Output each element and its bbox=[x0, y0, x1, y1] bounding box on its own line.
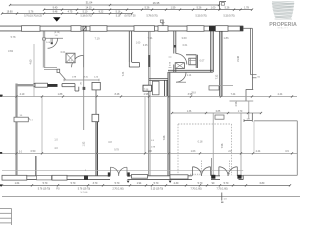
window B4 bottom wall bbox=[170, 175, 188, 179]
hall door arc bbox=[72, 55, 84, 67]
svg-text:(9.4): (9.4) bbox=[83, 76, 88, 78]
svg-text:0.07: 0.07 bbox=[200, 60, 205, 63]
right wall jog marks bbox=[251, 75, 261, 79]
left edge mark y96 bbox=[0, 95, 3, 97]
svg-text:5.16: 5.16 bbox=[116, 10, 121, 13]
annex right edge bbox=[296, 121, 298, 176]
svg-text:4.60: 4.60 bbox=[30, 59, 33, 64]
pier in top wall bbox=[209, 26, 215, 31]
bathtub bbox=[152, 81, 159, 95]
pier between doors 1 bbox=[211, 175, 215, 179]
double door arc right leaf bbox=[119, 167, 127, 176]
WC fixture box bbox=[189, 58, 196, 65]
window W4 top wall bbox=[134, 26, 155, 32]
svg-text:7.70 (1.60): 7.70 (1.60) bbox=[190, 188, 201, 190]
dashed rectangle right bbox=[231, 124, 233, 175]
svg-text:7.44: 7.44 bbox=[122, 71, 125, 76]
left exterior wall (thick grey) bbox=[15, 84, 17, 176]
svg-text:9.78: 9.78 bbox=[114, 149, 119, 151]
column box x92 y82.5 bbox=[92, 82, 100, 90]
svg-text:1.36: 1.36 bbox=[187, 111, 192, 113]
shaft box with cross bbox=[66, 53, 75, 63]
double door leaves bbox=[110, 167, 127, 176]
WC tiny tick marks bbox=[169, 57, 172, 68]
dashed segment in bottom wall bbox=[190, 173, 201, 175]
corridor door arc bbox=[176, 72, 186, 82]
door opening whiteout 3 bbox=[220, 175, 239, 180]
svg-text:14.10: 14.10 bbox=[86, 6, 93, 9]
annex bottom edge bbox=[243, 174, 297, 176]
wall x175 middle segment bbox=[174, 65, 176, 73]
door opening whiteout 1 bbox=[110, 175, 127, 180]
labels above y96.5 line bbox=[20, 93, 283, 96]
wall line x211.6 lower bbox=[211, 158, 213, 176]
svg-text:3.82: 3.82 bbox=[8, 49, 14, 53]
dimension line C (left) bbox=[2, 13, 132, 15]
svg-text:0.61: 0.61 bbox=[183, 44, 188, 47]
svg-text:7.19: 7.19 bbox=[94, 36, 100, 40]
svg-text:5.26: 5.26 bbox=[145, 6, 150, 9]
svg-text:9.40: 9.40 bbox=[53, 6, 58, 9]
hall door diagonal leaf bbox=[59, 72, 65, 79]
dashed rectangle left bbox=[177, 124, 179, 175]
pier between doors 2 bbox=[237, 175, 241, 179]
svg-text:6.80: 6.80 bbox=[260, 182, 265, 185]
svg-text:9.48: 9.48 bbox=[53, 10, 58, 13]
bottom dimension line E bbox=[2, 184, 290, 186]
hall wall y68.5 double bbox=[44, 68, 57, 70]
bottom exterior wall inner line bbox=[2, 175, 243, 177]
column box x92 y114.3 bbox=[92, 114, 99, 121]
annex dim labels bbox=[187, 111, 243, 113]
svg-text:5.70: 5.70 bbox=[154, 182, 159, 185]
vestibule wall x44 double bbox=[43, 31, 45, 68]
window W2 top wall bbox=[71, 26, 81, 32]
annex top edge bbox=[254, 120, 297, 122]
labels above y153.4 line bbox=[31, 150, 290, 153]
dimension text row D bbox=[24, 16, 235, 18]
bottom dim labels below bbox=[38, 188, 228, 190]
dimension labels row C bbox=[7, 10, 121, 13]
svg-text:5.76 (19.70): 5.76 (19.70) bbox=[78, 188, 91, 190]
svg-text:1.03: 1.03 bbox=[191, 150, 196, 153]
svg-text:5.76: 5.76 bbox=[29, 10, 34, 13]
svg-text:(9.70) 7.50: (9.70) 7.50 bbox=[124, 16, 136, 18]
thin vertical x145 bbox=[144, 97, 146, 153]
WC right wall bbox=[196, 55, 197, 68]
svg-text:5.78 (9.70): 5.78 (9.70) bbox=[146, 16, 157, 18]
vestibule box on wall bbox=[43, 38, 46, 40]
svg-text:7.98: 7.98 bbox=[144, 90, 149, 92]
svg-text:1.64: 1.64 bbox=[15, 182, 20, 185]
thin vertical x213 bbox=[212, 113, 214, 176]
window W1 top wall bbox=[22, 26, 41, 32]
svg-text:3.60: 3.60 bbox=[181, 36, 187, 40]
svg-text:5.70: 5.70 bbox=[198, 182, 203, 185]
overall dimension line A (31.04) bbox=[10, 4, 219, 6]
north arrow solid triangle bbox=[53, 17, 61, 21]
line F tick x222 bbox=[222, 193, 228, 201]
svg-text:5.78: 5.78 bbox=[11, 36, 16, 39]
wall x96.7 vertical dark bbox=[96, 122, 98, 176]
double door jamb pier right bbox=[127, 172, 130, 176]
radiator on left wall bbox=[14, 117, 28, 122]
interior thin vertical x34 bbox=[33, 44, 35, 97]
svg-text:7.91: 7.91 bbox=[147, 36, 153, 40]
pier in bottom wall x84 bbox=[84, 175, 88, 179]
dimension line B bbox=[44, 9, 252, 11]
svg-text:4.75: 4.75 bbox=[68, 10, 73, 13]
elevation marker on top wall bbox=[160, 20, 164, 27]
svg-text:7.75 (1.60): 7.75 (1.60) bbox=[216, 188, 227, 190]
svg-text:39.8: 39.8 bbox=[191, 93, 196, 95]
svg-text:4.19: 4.19 bbox=[20, 93, 25, 96]
short line y85 right bbox=[210, 85, 233, 87]
mid wall band double lines bbox=[34, 84, 36, 87]
svg-text:7.58: 7.58 bbox=[221, 143, 224, 148]
column in top wall bbox=[83, 26, 86, 31]
wall step down at x75 bbox=[75, 84, 79, 91]
right wall stub below bbox=[248, 101, 250, 119]
dimension arrow triangle 2 bbox=[169, 181, 172, 183]
window B1 bottom wall bbox=[2, 175, 27, 180]
svg-text:2.70 (1.60): 2.70 (1.60) bbox=[112, 188, 123, 190]
mini dimension line y80 bbox=[64, 79, 99, 81]
right exterior wall lower segment bbox=[251, 75, 253, 90]
dark nub on x83.7 bbox=[83, 87, 86, 90]
french door pair 2 arcs bbox=[193, 167, 211, 176]
dimension arrow triangle 1 bbox=[127, 181, 130, 183]
WC top wall bbox=[186, 54, 197, 56]
double door arc left leaf bbox=[110, 167, 118, 176]
annex corner tick cluster bbox=[244, 113, 252, 122]
svg-text:1.78: 1.78 bbox=[244, 6, 249, 9]
svg-text:5.70: 5.70 bbox=[224, 182, 229, 185]
svg-text:2.96: 2.96 bbox=[235, 101, 238, 106]
terrace thin vertical x241 bbox=[240, 113, 242, 177]
svg-text:19.90: 19.90 bbox=[7, 10, 14, 13]
logo wave pattern bbox=[272, 2, 294, 19]
svg-text:1.59: 1.59 bbox=[171, 6, 176, 9]
svg-text:7.68: 7.68 bbox=[163, 135, 166, 140]
svg-text:9.22: 9.22 bbox=[99, 10, 104, 13]
svg-text:5.15 (19.70): 5.15 (19.70) bbox=[151, 188, 164, 190]
hall door leaf bbox=[83, 55, 85, 67]
wall x130 return hook bbox=[129, 62, 139, 67]
elevation marker top right bbox=[220, 2, 227, 10]
svg-text:18.: 18. bbox=[20, 115, 23, 117]
bottom dim labels above bbox=[15, 182, 265, 185]
bath wall y79.5 bbox=[149, 79, 168, 81]
thin wall line x83.7 bbox=[83, 31, 85, 130]
svg-text:1.14: 1.14 bbox=[187, 75, 192, 77]
wall x175 upper bbox=[174, 31, 176, 54]
parapet line to right wall bbox=[244, 27, 253, 29]
svg-text:0.01: 0.01 bbox=[61, 51, 66, 54]
svg-text:5.26: 5.26 bbox=[225, 6, 230, 9]
interior line y170.7 bbox=[2, 170, 243, 172]
door centerline dashed 1 bbox=[201, 161, 203, 176]
svg-text:1.70: 1.70 bbox=[238, 111, 243, 113]
svg-text:5.18 (9.70): 5.18 (9.70) bbox=[80, 16, 91, 18]
fixture box on annex line bbox=[215, 115, 224, 119]
corridor wall y71 bbox=[168, 70, 213, 72]
svg-text:(8.18): (8.18) bbox=[54, 32, 60, 34]
interior thin vertical x42 bbox=[41, 97, 43, 154]
svg-text:5.76 (19.70): 5.76 (19.70) bbox=[38, 188, 51, 190]
window W3 top wall bbox=[90, 26, 107, 32]
window W5 top wall bbox=[158, 26, 168, 32]
svg-text:31.04: 31.04 bbox=[86, 1, 93, 5]
entrance door arc bbox=[48, 38, 58, 48]
interior dimension line y153.4 bbox=[0, 152, 297, 154]
bottom wall end vertical bbox=[242, 175, 244, 179]
bottom dimension line F bbox=[2, 196, 300, 198]
svg-text:1.88: 1.88 bbox=[58, 93, 63, 96]
svg-text:0.18: 0.18 bbox=[198, 141, 203, 144]
svg-text:2.44: 2.44 bbox=[278, 93, 283, 96]
svg-text:5.70: 5.70 bbox=[43, 182, 48, 185]
svg-text:5.76 (19.70) 8.25: 5.76 (19.70) 8.25 bbox=[24, 16, 42, 18]
svg-text:0.85: 0.85 bbox=[216, 111, 221, 113]
svg-text:16.35: 16.35 bbox=[153, 1, 160, 5]
svg-text:1.00: 1.00 bbox=[211, 6, 216, 9]
svg-text:5.15 (9.70): 5.15 (9.70) bbox=[195, 16, 206, 18]
svg-text:3.70: 3.70 bbox=[93, 182, 98, 185]
dark block at x147 y88 bbox=[143, 85, 152, 91]
interior dimension line y96.5 bbox=[3, 96, 297, 98]
window in mid wall bbox=[35, 83, 48, 87]
french door pair 3 arcs bbox=[219, 167, 237, 176]
door centerline dashed 2 bbox=[229, 161, 231, 176]
bottom exterior wall outer line bbox=[2, 179, 243, 181]
svg-text:1.94: 1.94 bbox=[137, 182, 142, 185]
svg-text:1.60: 1.60 bbox=[136, 43, 141, 45]
hall wall corner box bbox=[57, 69, 60, 72]
svg-text:7.32: 7.32 bbox=[215, 74, 218, 79]
right wall step horizontal bbox=[246, 89, 253, 91]
french door pair 2 leaves bbox=[193, 167, 211, 176]
wall x130 vertical bbox=[129, 31, 131, 62]
svg-text:5.15 (9.70): 5.15 (9.70) bbox=[223, 16, 234, 18]
wall x212 vertical dark bbox=[211, 31, 213, 72]
svg-text:2.44: 2.44 bbox=[256, 150, 261, 153]
mini dim labels y77 bbox=[72, 76, 99, 78]
right wall step vertical bbox=[245, 90, 247, 102]
shaft box with cross 2 bbox=[175, 63, 184, 69]
window W7 top wall bbox=[216, 26, 229, 32]
svg-text:7.44: 7.44 bbox=[231, 93, 236, 96]
window sill right of door bbox=[131, 175, 147, 179]
mid wall band left thick segment bbox=[16, 84, 34, 86]
fixture box x209 y86 bbox=[209, 86, 219, 90]
window B3 bottom wall bbox=[52, 175, 67, 180]
right exterior wall upper (double line) bbox=[251, 28, 253, 74]
wall x36 lower vertical bbox=[35, 156, 37, 176]
annex dimension line y113 bbox=[172, 112, 261, 114]
dashed line rectangle top bbox=[178, 123, 232, 125]
svg-text:0.50: 0.50 bbox=[31, 150, 36, 153]
svg-text:REALITY: REALITY bbox=[278, 27, 289, 30]
door opening whiteout 2 bbox=[192, 175, 211, 180]
wall x149 vertical bbox=[148, 31, 150, 176]
top exterior wall inner line bbox=[0, 30, 243, 32]
wall x221 long vertical dark bbox=[220, 31, 222, 97]
radiator tick bbox=[28, 118, 33, 122]
tiny mark below bbox=[221, 202, 223, 203]
step dimension line bbox=[230, 100, 254, 102]
left edge mark y152 bbox=[0, 152, 2, 154]
corridor door leaf bbox=[176, 81, 186, 83]
mid wall notch segment bbox=[62, 84, 75, 87]
svg-text:5.16: 5.16 bbox=[116, 16, 121, 18]
room door arc into WC bbox=[176, 54, 187, 65]
annex left edge upper bbox=[253, 121, 255, 154]
dimension labels row B bbox=[53, 6, 250, 9]
wall line x96 upper bbox=[95, 90, 97, 114]
svg-text:8.48: 8.48 bbox=[115, 93, 120, 96]
svg-text:5.26: 5.26 bbox=[197, 6, 202, 9]
svg-text:5.10: 5.10 bbox=[83, 10, 88, 13]
svg-text:15.08: 15.08 bbox=[237, 55, 240, 62]
vestibule stub wall x51.5 bbox=[51, 38, 53, 44]
top exterior wall outer line bbox=[0, 25, 243, 27]
top wall right corner pier bbox=[240, 26, 244, 31]
window W6 top wall bbox=[187, 26, 204, 32]
svg-text:5.7 4.6: 5.7 4.6 bbox=[81, 192, 88, 194]
vestibule ceiling line y38.3 bbox=[45, 37, 63, 39]
bath wall x166 dark bbox=[165, 80, 167, 96]
dark segment mid wall bbox=[48, 84, 58, 87]
mini line y62 bbox=[65, 61, 76, 63]
svg-text:5.70: 5.70 bbox=[115, 182, 120, 185]
svg-text:1.86: 1.86 bbox=[223, 36, 229, 40]
svg-text:0.45: 0.45 bbox=[143, 44, 148, 47]
window B2 bottom wall bbox=[37, 176, 52, 180]
wall x169 vertical dark bbox=[168, 72, 170, 176]
svg-text:1.52: 1.52 bbox=[82, 141, 85, 146]
double door jamb pier left bbox=[108, 172, 110, 176]
svg-text:2.98: 2.98 bbox=[144, 93, 149, 96]
legend table frame bbox=[0, 209, 12, 226]
left edge mark y184 bbox=[0, 184, 2, 186]
svg-text:2.30: 2.30 bbox=[174, 182, 179, 185]
svg-text:5.70: 5.70 bbox=[71, 182, 76, 185]
